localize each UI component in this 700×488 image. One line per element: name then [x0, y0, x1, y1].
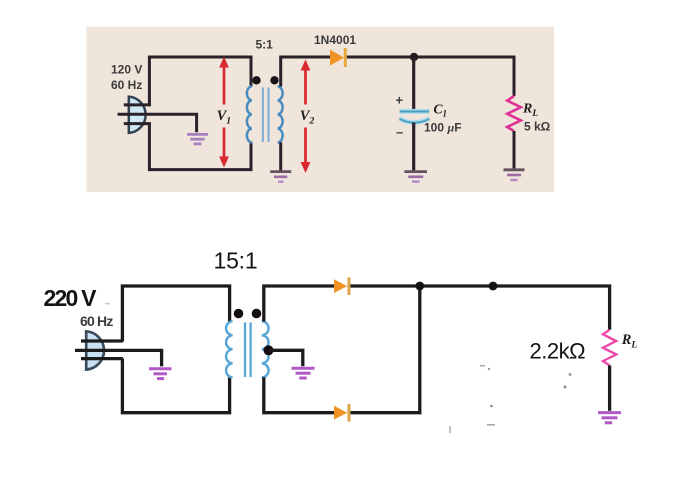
transformer T2 phasing dot left	[234, 309, 244, 319]
plug2 bottom prong wire	[81, 357, 123, 360]
wire primary loop bottom	[149, 123, 251, 169]
wire top diode to RL corner	[351, 286, 610, 330]
transformer T2 core lines	[244, 322, 246, 377]
plug neutral middle prong wire	[118, 114, 197, 132]
wire center tap to ground	[269, 350, 303, 366]
stray scan specks	[105, 303, 572, 433]
ground (RL bottom)	[598, 413, 621, 423]
transformer T1 primary coil	[247, 86, 252, 142]
svg-text:60 Hz: 60 Hz	[111, 78, 142, 92]
plug2 top prong wire	[81, 339, 123, 342]
transformer T1 phasing dot left	[252, 76, 260, 84]
transformer T1 core lines	[262, 88, 264, 143]
node junction (output tap)	[489, 282, 498, 291]
resistor RL 5 kOhm (zigzag)	[507, 96, 521, 131]
wire bottom diode to riser	[351, 286, 420, 413]
wire resistor to ground	[513, 131, 516, 169]
node junction at filter	[410, 53, 418, 61]
transformer T1 secondary coil	[278, 86, 283, 142]
wire bottom primary loop top	[122, 286, 229, 342]
wire bottom primary loop bottom	[122, 358, 229, 412]
ground (capacitor)	[404, 172, 427, 182]
diode D3 (bottom)	[334, 404, 351, 422]
wire resistor2 to ground	[608, 365, 611, 410]
wire junction down to capacitor	[412, 57, 415, 109]
svg-text:60 Hz: 60 Hz	[80, 313, 113, 329]
AC plug P2 (220 V 60 Hz source)	[86, 331, 104, 369]
diode D2 (top)	[334, 277, 351, 295]
wire capacitor to ground	[412, 123, 415, 171]
AC plug P1 (120 V 60 Hz source)	[129, 97, 146, 133]
wire secondary2 bottom to diode	[264, 377, 335, 413]
wire diode to load corner	[347, 57, 514, 96]
V2 arrow (red)	[301, 60, 311, 174]
plug bottom prong wire	[124, 122, 151, 125]
svg-text:–: –	[396, 125, 403, 140]
svg-text:1N4001: 1N4001	[314, 33, 356, 47]
ground (RL)	[504, 170, 525, 180]
svg-text:+: +	[396, 93, 404, 108]
svg-text:15:1: 15:1	[214, 247, 258, 273]
svg-text:220 V: 220 V	[44, 285, 98, 311]
wire secondary2 top to diode	[264, 286, 335, 322]
wire primary loop top (plug to transformer)	[149, 57, 251, 106]
ground (plug2 neutral)	[149, 369, 172, 379]
node junction (riser joins top wire)	[415, 282, 424, 291]
resistor RL 2.2k (zigzag)	[603, 330, 616, 366]
transformer T2 primary coil	[226, 321, 233, 377]
ground (secondary)	[270, 172, 291, 182]
svg-text:120 V: 120 V	[111, 63, 142, 77]
ground (plug neutral)	[187, 134, 208, 144]
capacitor C1 plates	[399, 111, 429, 122]
plug2 neutral middle prong wire	[75, 350, 162, 366]
V1 arrow (red)	[219, 57, 229, 168]
svg-text:5 kΩ: 5 kΩ	[524, 120, 551, 134]
transformer T2 phasing dot right	[252, 309, 262, 319]
top circuit background panel	[87, 27, 555, 193]
wire secondary top to diode	[281, 57, 331, 87]
wire secondary bottom to ground	[279, 142, 282, 170]
transformer T1 phasing dot right	[270, 76, 278, 84]
svg-text:RL: RL	[621, 332, 638, 351]
ground (center tap)	[292, 368, 315, 378]
diode D1 1N4001	[330, 48, 347, 67]
transformer T2 secondary coil	[262, 321, 269, 377]
svg-text:2.2kΩ: 2.2kΩ	[530, 339, 586, 364]
plug top prong wire	[124, 103, 151, 106]
svg-text:100 µF: 100 µF	[424, 121, 462, 135]
center tap node	[264, 345, 274, 355]
svg-text:5:1: 5:1	[256, 38, 274, 52]
